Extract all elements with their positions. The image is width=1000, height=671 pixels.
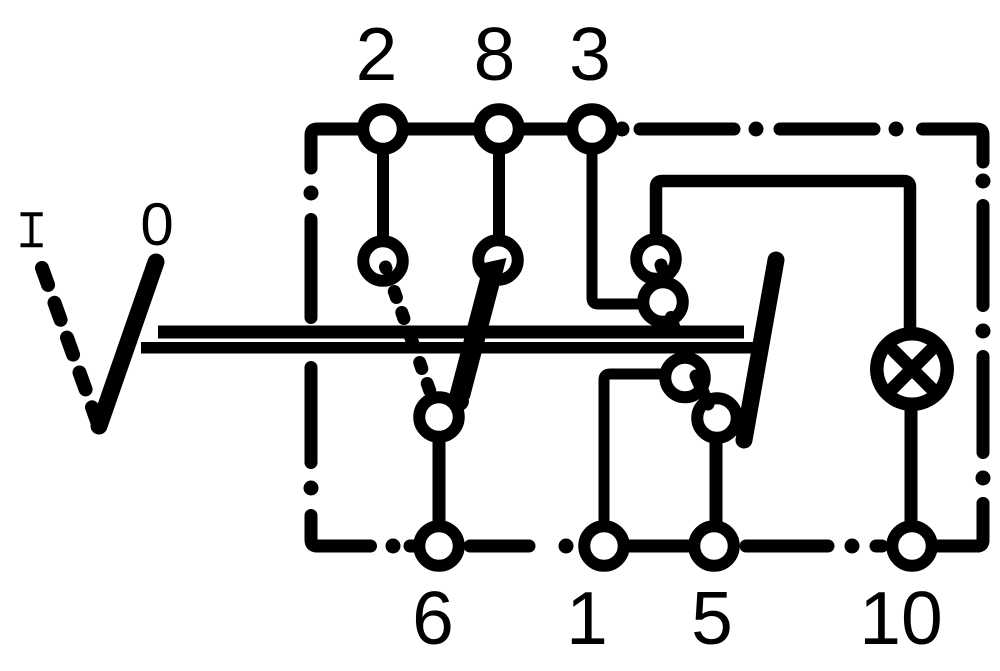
svg-text:2: 2 [356,12,398,96]
svg-text:0: 0 [140,191,173,258]
svg-text:5: 5 [691,576,733,660]
svg-text:6: 6 [412,576,454,660]
svg-text:3: 3 [569,12,611,96]
svg-text:1: 1 [566,576,608,660]
svg-text:8: 8 [474,12,516,96]
svg-text:10: 10 [859,576,942,660]
